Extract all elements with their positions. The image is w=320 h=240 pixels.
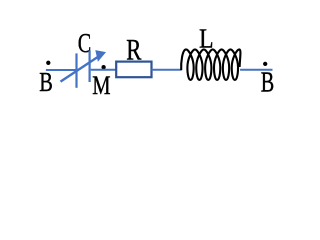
resistor R body [116,62,151,78]
node B right terminal dot [263,62,267,66]
inductor L coil [181,49,240,80]
wire from B to capacitor [46,69,77,71]
svg-text:B: B [39,68,53,98]
variable capacitor arrowhead [95,50,106,62]
capacitor C right plate [88,50,90,82]
wire from capacitor to resistor [91,69,117,71]
wire from inductor to B right [240,69,272,71]
svg-text:B: B [261,67,274,98]
variable capacitor arrow shaft [61,56,100,82]
capacitor C left plate [75,53,77,87]
node B left terminal dot [46,61,50,65]
svg-text:M: M [92,72,110,101]
node M dot [101,65,105,69]
wire from resistor to inductor [152,69,181,71]
